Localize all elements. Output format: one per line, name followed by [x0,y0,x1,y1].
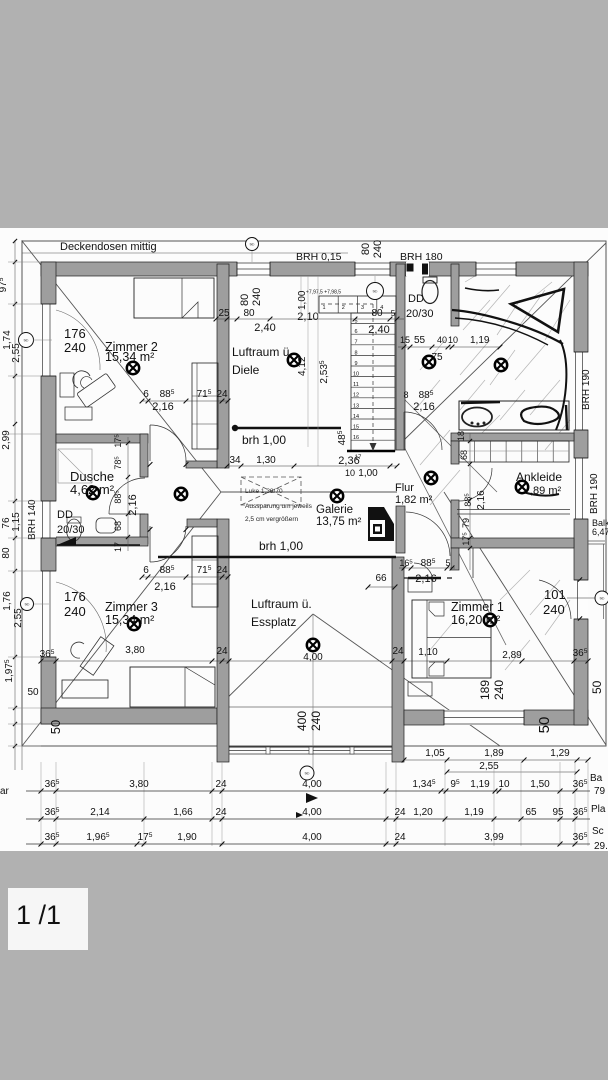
svg-text:2,89: 2,89 [502,650,522,661]
svg-text:tkb: tkb [250,243,255,247]
svg-text:65: 65 [525,807,537,818]
svg-text:16: 16 [353,435,359,441]
ceiling outlet galerie [331,490,343,502]
bottom dim row A [26,790,590,792]
svg-text:240: 240 [64,340,86,355]
svg-text:485: 485 [337,430,348,445]
ceiling outlet dusche [87,487,99,499]
bay left wall [217,519,229,762]
dim row zimmer3 door [142,576,228,578]
bottom-left wall [41,708,217,724]
svg-text:2,40: 2,40 [368,324,389,336]
window 80/240 top wall stair [355,262,390,276]
dim row zimmer2 door [142,400,228,402]
extension lines bottom [41,762,588,846]
svg-text:4,12: 4,12 [297,356,308,376]
svg-text:50: 50 [536,717,553,734]
bathtub sketch [459,401,569,430]
shower dusche [58,449,92,483]
dusche top wall [56,434,148,443]
svg-text:240: 240 [372,240,384,258]
closet ankleide [459,441,569,462]
stair side line [351,312,395,314]
zimmer1 entry partition [404,577,411,579]
ceiling outlet zimmer3 [128,618,140,630]
svg-text:Ankleide: Ankleide [516,470,562,484]
dusche right wall upper [140,434,148,477]
svg-text:885: 885 [160,389,175,400]
desk zimmer2 [77,373,116,408]
balcony rail lines [588,540,605,542]
triangle sketch bath [511,289,564,332]
svg-text:1,19: 1,19 [470,335,490,346]
svg-text:Pla: Pla [591,804,606,815]
svg-text:11: 11 [353,382,359,388]
wc dusche [67,519,82,541]
svg-text:BRH 140: BRH 140 [27,499,38,540]
svg-text:tkb: tkb [24,339,29,343]
svg-text:brh 1,00: brh 1,00 [259,539,303,553]
svg-text:24: 24 [216,646,228,657]
dusche interior dim line [127,437,129,551]
luke ceiling opening dashed [241,477,301,505]
svg-text:1,00: 1,00 [358,468,378,479]
svg-text:1,29: 1,29 [550,748,570,759]
svg-text:1,19: 1,19 [464,807,484,818]
black wedge dusche floor [57,537,76,545]
svg-text:4,00: 4,00 [303,652,323,663]
svg-text:101: 101 [544,587,566,602]
svg-text:10: 10 [448,335,458,345]
ceiling outlet corridor [175,488,187,500]
svg-text:29.: 29. [594,841,608,852]
svg-text:4,62 m²: 4,62 m² [70,482,115,497]
window swing arc zimmer2 [56,310,100,370]
svg-text:15: 15 [400,335,410,345]
svg-text:4,00: 4,00 [302,779,322,790]
zimmer2 right wall [217,264,229,468]
top circles [246,238,259,251]
wardrobe zimmer2 [192,363,218,449]
svg-text:1,20: 1,20 [413,807,433,818]
svg-text:1,345: 1,345 [412,779,435,790]
svg-text:1,66: 1,66 [173,807,193,818]
svg-text:BRH 190: BRH 190 [581,369,592,410]
svg-text:2,535: 2,535 [319,360,330,383]
bed zimmer3 [130,667,215,707]
svg-text:1,975: 1,975 [4,659,15,682]
svg-text:Zimmer 1: Zimmer 1 [451,600,504,614]
svg-text:1,15: 1,15 [11,512,22,532]
desk zimmer3 [80,637,114,676]
zimmer2 door wall stub [186,461,217,468]
svg-text:6,47: 6,47 [592,527,608,537]
svg-text:176: 176 [64,589,86,604]
svg-text:885: 885 [160,565,175,576]
window top wall bath [476,262,516,276]
svg-text:12: 12 [353,393,359,399]
svg-text:365: 365 [45,807,60,818]
svg-text:2,16: 2,16 [476,490,487,510]
dim row interior y650 [41,660,588,662]
svg-text:25: 25 [218,308,230,319]
svg-text:365: 365 [45,779,60,790]
svg-text:2,16: 2,16 [152,401,173,413]
svg-text:715: 715 [197,389,212,400]
balcony door 101/240 [574,580,588,619]
bottom dim row C [26,843,590,845]
diele dim extension lines [300,276,302,319]
ceiling outlet zimmer2 [127,362,139,374]
sink dusche [96,518,116,533]
svg-text:1,00: 1,00 [297,290,308,310]
svg-text:2,55: 2,55 [13,608,24,628]
bed zimmer1 [412,600,491,678]
svg-text:24: 24 [216,389,228,400]
svg-text:1,90: 1,90 [177,832,197,843]
svg-text:2,14: 2,14 [90,807,110,818]
svg-text:20/30: 20/30 [57,524,85,536]
svg-text:80: 80 [371,308,383,319]
sheet background [0,228,608,851]
svg-text:+7,97,5 +7,98,5: +7,97,5 +7,98,5 [306,290,341,296]
svg-text:16,20 m²: 16,20 m² [451,613,500,627]
svg-text:BRH 190: BRH 190 [589,473,600,514]
circle leader lines [251,250,253,262]
bay hip left [217,614,313,708]
svg-text:75: 75 [431,352,443,363]
ceiling outlet diele [288,354,300,366]
svg-text:1,76: 1,76 [2,591,13,611]
svg-text:10: 10 [353,372,359,378]
svg-text:240: 240 [64,604,86,619]
ceiling outlet flur [425,472,437,484]
page number box [8,888,88,950]
zimmer3 wall stub [187,519,217,527]
svg-text:Galerie: Galerie [316,504,353,516]
svg-text:20/30: 20/30 [406,308,434,320]
svg-text:24: 24 [215,779,227,790]
flur south wall stub [451,548,459,570]
window swing arc zimmer3 [56,582,106,652]
svg-text:10: 10 [498,779,510,790]
brh 1,00 line lower [158,556,396,558]
svg-text:2,36: 2,36 [338,455,359,467]
dim line 2,55 bottom right [447,771,577,773]
ceiling outlet ankleide [516,481,528,493]
svg-text:80: 80 [1,547,12,559]
svg-text:24: 24 [215,807,227,818]
svg-text:Essplatz: Essplatz [251,615,296,629]
door ankleide [459,468,492,501]
sketch stroke bath window sill [465,288,499,291]
chimney block [368,507,394,541]
svg-text:8: 8 [354,350,357,356]
sketch stroke bath [452,310,563,344]
svg-text:175: 175 [138,832,153,843]
wc roof window top wall [406,262,429,276]
door zimmer2 [149,425,151,461]
left margin dim chain lines [14,240,16,770]
svg-text:715: 715 [197,565,212,576]
svg-text:79: 79 [594,786,606,797]
stair wall upper [396,264,405,450]
svg-text:6: 6 [143,565,149,576]
svg-text:6: 6 [143,389,149,400]
svg-text:brh 1,00: brh 1,00 [242,433,286,447]
stair wall lower [396,506,405,553]
svg-text:2: 2 [342,305,345,311]
sink sketch bath right [521,407,559,424]
svg-text:Aussparung um jeweils: Aussparung um jeweils [245,503,313,510]
svg-text:2,16: 2,16 [154,581,175,593]
right wall segments [574,262,588,352]
staircase walk line [321,303,373,305]
svg-text:tkb: tkb [305,772,310,776]
svg-text:BRH 0,15: BRH 0,15 [296,251,342,263]
svg-text:15,34 m²: 15,34 m² [105,613,154,627]
wc room right wall [451,264,459,326]
window bottom wall zimmer1 [444,710,524,725]
svg-text:3: 3 [361,305,364,311]
window 176/240 zimmer2 [41,304,56,376]
bay window 400/240 [229,746,392,748]
pillow zimmer1 lower [429,662,444,676]
svg-text:,89 m²: ,89 m² [530,485,562,497]
svg-text:17: 17 [113,542,123,552]
window 176/240 zimmer3 [41,571,56,657]
bay centre line [312,614,314,770]
left margin connector lines [8,262,41,746]
svg-text:240: 240 [543,602,565,617]
dim row zimmer2 window head [216,318,404,320]
svg-text:80: 80 [360,243,372,255]
chair zimmer2 [73,371,90,388]
ceiling outlet zimmer1 [484,614,496,626]
svg-text:68: 68 [459,450,469,460]
ankleide interior dim line [469,433,471,570]
door flur upper arc [403,412,405,450]
bed zimmer2 [134,278,214,318]
svg-text:240: 240 [251,288,263,306]
bay hip right [313,614,500,746]
chair zimmer3 [71,642,84,658]
svg-text:2,99: 2,99 [1,430,12,450]
svg-text:55: 55 [414,335,426,346]
svg-text:24: 24 [394,807,406,818]
left margin circles [19,333,34,348]
svg-text:400: 400 [295,711,309,731]
svg-text:885: 885 [419,390,434,401]
bottom-right wall segments [404,710,444,725]
dresser zimmer3 [62,680,108,698]
door zimmer3 [149,526,151,562]
svg-text:785: 785 [113,456,123,470]
window BRH140 dusche [41,501,56,538]
svg-text:24: 24 [392,646,404,657]
svg-text:3,80: 3,80 [129,779,149,790]
shelf zimmer2 [60,373,74,397]
svg-text:365: 365 [573,832,588,843]
svg-text:1,89: 1,89 [484,748,504,759]
bottom circle mid [300,766,314,780]
svg-text:165: 165 [399,558,413,568]
svg-text:tkb: tkb [373,290,378,294]
ankleide lower closet lines [457,509,570,511]
svg-text:tkb: tkb [600,597,605,601]
wc bath [422,281,438,304]
dusche right wall lower [140,514,148,544]
dim row corridor 34 1.30 [227,465,397,467]
deckendosen leader line [22,252,348,254]
svg-text:66: 66 [375,573,387,584]
svg-text:15: 15 [353,425,359,431]
roof eaves outline [22,241,606,746]
zimmer1 left wall [392,557,404,762]
svg-text:1,19: 1,19 [470,779,490,790]
staircase flight [351,313,395,451]
door dusche [109,513,145,515]
svg-text:50: 50 [590,680,604,694]
dusche bottom wall [56,537,148,546]
svg-text:1,10: 1,10 [418,647,438,658]
ankleide bottom wall [451,538,574,548]
svg-text:3,80: 3,80 [125,645,145,656]
svg-text:365: 365 [45,832,60,843]
svg-text:13: 13 [353,403,359,409]
svg-text:2,5 cm vergrößern: 2,5 cm vergrößern [245,516,298,523]
ankleide top wall [451,433,574,441]
svg-text:189: 189 [478,680,492,700]
roof ridge [221,491,397,493]
svg-text:1,82 m²: 1,82 m² [395,494,433,506]
svg-text:50: 50 [27,687,39,698]
left wall segments [41,262,56,304]
svg-text:10: 10 [345,468,355,478]
svg-text:4,00: 4,00 [302,807,322,818]
door balcony [539,580,571,619]
svg-text:365: 365 [573,807,588,818]
svg-text:1: 1 [322,305,325,311]
svg-text:2,16: 2,16 [127,494,139,515]
svg-text:13,75 m²: 13,75 m² [316,516,362,528]
svg-text:4,00: 4,00 [302,832,322,843]
svg-text:1,05: 1,05 [425,748,445,759]
svg-text:80: 80 [243,308,255,319]
svg-text:1,50: 1,50 [530,779,550,790]
svg-text:885: 885 [463,493,473,507]
svg-text:1,30: 1,30 [256,455,276,466]
ceiling outlet wc [423,356,435,368]
svg-text:15,34 m²: 15,34 m² [105,350,154,364]
svg-text:2,16: 2,16 [415,573,436,585]
door zimmer1 arc [414,563,433,581]
svg-text:Flur: Flur [395,482,414,494]
svg-text:7: 7 [354,340,357,346]
svg-text:3,99: 3,99 [484,832,504,843]
right circle [595,591,608,605]
svg-text:BRH 180: BRH 180 [400,251,443,263]
svg-text:95: 95 [552,807,564,818]
staircase bottom edge [347,450,395,453]
bay eaves line [227,706,392,708]
svg-text:40: 40 [437,335,447,345]
ankleide left wall lower [451,500,459,538]
window 80/240 top wall left [237,262,270,276]
svg-text:240: 240 [492,680,506,700]
svg-text:2,55: 2,55 [11,343,22,363]
svg-text:68: 68 [113,521,123,531]
svg-text:885: 885 [421,558,436,569]
svg-text:975: 975 [0,277,9,292]
window BRH190 bath [574,352,588,430]
bedside tables zimmer1 [408,578,432,592]
roof hip top-left [22,241,221,492]
door flur lower arc [406,512,450,556]
dresser zimmer2 lower [65,407,92,420]
svg-text:2,55: 2,55 [479,761,499,772]
ceiling outlet essplatz [307,639,319,651]
ceiling outlet bath [495,359,507,371]
svg-text:79: 79 [461,518,471,528]
svg-text:95: 95 [450,779,460,790]
flur corridor frame line [472,548,474,578]
roof hip bottom-right [444,492,606,745]
svg-text:Ba: Ba [590,773,603,784]
window BRH190 ankleide [574,458,588,519]
svg-text:240: 240 [309,711,323,731]
svg-text:24: 24 [216,565,228,576]
svg-text:Deckendosen mittig: Deckendosen mittig [60,241,157,253]
pencil hatching bath area [415,270,570,670]
svg-text:34: 34 [229,455,241,466]
svg-text:Zimmer 3: Zimmer 3 [105,600,158,614]
ankleide left wall upper [451,441,459,464]
zimmer1 door leaf thick [408,577,441,580]
svg-text:9: 9 [354,361,357,367]
svg-text:DD: DD [57,509,73,521]
svg-text:5: 5 [391,309,396,318]
svg-text:80: 80 [239,294,251,306]
svg-text:tkb: tkb [25,603,30,607]
brh 1,00 line upper [235,427,341,429]
wardrobe zimmer3 [192,536,218,607]
svg-text:DD: DD [408,293,424,305]
svg-text:18: 18 [456,431,466,441]
svg-text:2,40: 2,40 [254,322,275,334]
svg-text:Sc: Sc [592,826,604,837]
svg-text:ar: ar [0,786,10,797]
svg-text:Luftraum ü.: Luftraum ü. [232,345,293,359]
svg-text:Luftraum ü.: Luftraum ü. [251,597,312,611]
svg-text:1,965: 1,965 [86,832,109,843]
svg-text:Luke 1,38/70: Luke 1,38/70 [245,488,283,495]
svg-text:Diele: Diele [232,363,260,377]
svg-text:6: 6 [354,329,357,335]
svg-text:8: 8 [403,390,408,400]
svg-text:176: 176 [64,326,86,341]
top wall segments [41,262,237,276]
roof valley right steep [399,437,506,645]
balcony sketch lines [523,492,559,496]
roof valley flur [396,391,497,492]
svg-text:24: 24 [394,832,406,843]
svg-text:2,16: 2,16 [413,401,434,413]
svg-text:50: 50 [48,720,63,734]
pillow zimmer1 upper [429,602,444,616]
staircase top landing [319,296,396,313]
svg-text:14: 14 [353,414,359,420]
